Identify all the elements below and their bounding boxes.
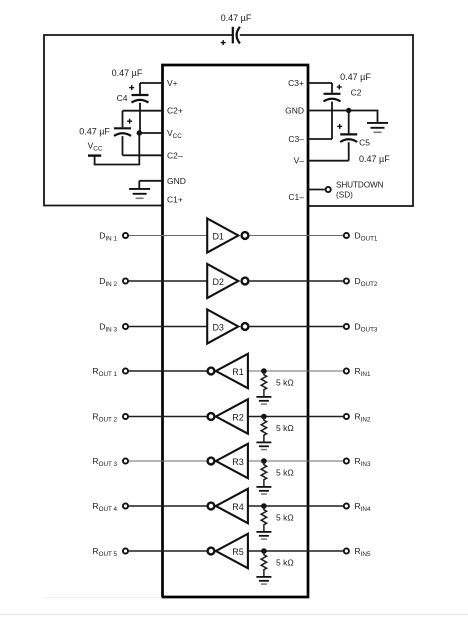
svg-text:C3+: C3+ — [288, 78, 304, 88]
svg-text:R4: R4 — [232, 502, 244, 512]
svg-text:C5: C5 — [359, 138, 370, 148]
svg-text:C2–: C2– — [167, 150, 183, 160]
svg-text:5 kΩ: 5 kΩ — [276, 558, 294, 568]
svg-text:C1+: C1+ — [167, 195, 183, 205]
svg-text:5 kΩ: 5 kΩ — [276, 468, 294, 478]
svg-text:5 kΩ: 5 kΩ — [276, 513, 294, 523]
svg-text:5 kΩ: 5 kΩ — [276, 378, 294, 388]
svg-text:0.47 µF: 0.47 µF — [359, 154, 390, 164]
svg-text:0.47 µF: 0.47 µF — [221, 13, 252, 23]
svg-text:C3–: C3– — [288, 134, 304, 144]
svg-text:GND: GND — [167, 176, 186, 186]
svg-text:C2+: C2+ — [167, 106, 183, 116]
svg-text:V+: V+ — [167, 78, 178, 88]
svg-text:C2: C2 — [351, 88, 362, 98]
svg-text:R3: R3 — [232, 457, 244, 467]
svg-text:R1: R1 — [232, 367, 244, 377]
svg-text:R2: R2 — [232, 412, 244, 422]
svg-text:C1–: C1– — [288, 192, 304, 202]
svg-text:D2: D2 — [212, 277, 224, 287]
svg-text:0.47 µF: 0.47 µF — [79, 126, 110, 136]
svg-text:V–: V– — [294, 156, 305, 166]
svg-text:SHUTDOWN: SHUTDOWN — [336, 181, 384, 190]
svg-text:D3: D3 — [212, 322, 224, 332]
svg-text:5 kΩ: 5 kΩ — [276, 423, 294, 433]
svg-text:D1: D1 — [212, 231, 224, 241]
svg-text:0.47 µF: 0.47 µF — [340, 72, 371, 82]
svg-text:0.47 µF: 0.47 µF — [112, 68, 143, 78]
svg-text:C4: C4 — [117, 93, 128, 103]
svg-text:GND: GND — [285, 106, 304, 116]
svg-text:R5: R5 — [232, 547, 244, 557]
svg-text:(SD): (SD) — [336, 190, 353, 199]
